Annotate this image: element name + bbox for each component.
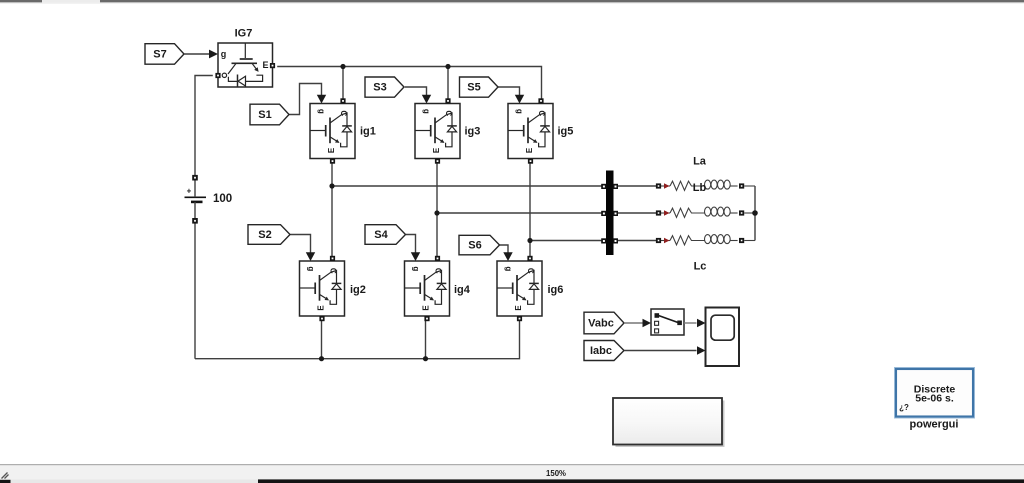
input tag S4: [365, 225, 406, 245]
wire phase C to bus: [530, 240, 602, 242]
svg-text:ig6: ig6: [548, 284, 564, 296]
input tag S2: [248, 225, 290, 245]
status bar: [0, 464, 1024, 479]
arrowhead into IG7 g port: [209, 50, 218, 59]
output tag Iabc: [584, 341, 624, 361]
svg-text:g: g: [221, 49, 227, 59]
wire S2 to ig2 gate: [290, 235, 310, 253]
wire phase C vertical ig5 E to ig6 C: [529, 159, 531, 262]
junction node bottom rail at ig2: [319, 356, 324, 361]
wire: top DC+ rail from IG7 E to ig5 collector: [277, 67, 541, 99]
IGBT block IG7: [215, 43, 275, 87]
pin bus left port A: [601, 184, 606, 189]
svg-text:S5: S5: [467, 82, 480, 94]
input tag S1: [250, 104, 289, 125]
RL branch Lb: [656, 207, 755, 217]
powergui block: [895, 368, 975, 418]
subsystem rectangle block: [613, 398, 725, 447]
manual switch block: [651, 309, 684, 335]
wire: bottom DC- rail: [195, 321, 520, 359]
wire ig2 emitter drop: [321, 316, 323, 359]
three-phase measurement bus bar: [601, 171, 618, 256]
svg-text:Vabc: Vabc: [588, 318, 614, 330]
wire ig3 collector riser: [447, 67, 449, 99]
scope block: [706, 308, 740, 367]
junction node neutral: [752, 210, 758, 216]
window tab strip (top chrome): [0, 0, 1024, 4]
resize handle glyph bottom-left: [2, 473, 9, 479]
junction node bottom rail at ig4: [423, 356, 428, 361]
pin DC source minus port: [192, 218, 198, 224]
output tag Vabc: [584, 312, 624, 334]
junction node top rail at ig1: [340, 64, 345, 69]
wire bus to branch La: [618, 185, 657, 187]
svg-text:150%: 150%: [546, 469, 566, 478]
input tag S7: [145, 44, 184, 64]
wire manual switch to scope: [684, 322, 697, 324]
pin E port of IG7: [270, 63, 275, 68]
pin bus right port A: [613, 184, 618, 189]
svg-text:S7: S7: [153, 49, 166, 61]
svg-text:Lc: Lc: [694, 261, 707, 273]
svg-text:ig2: ig2: [350, 284, 366, 296]
pin bus right port C: [613, 238, 618, 243]
svg-text:Lb: Lb: [693, 182, 707, 194]
svg-text:ig3: ig3: [465, 126, 481, 138]
svg-text:S2: S2: [258, 229, 271, 241]
wire DC source positive to IG7 C: [195, 76, 213, 176]
RL branch La: [656, 180, 755, 190]
svg-text:5e-06 s.: 5e-06 s.: [915, 393, 954, 405]
input tag S3: [365, 77, 404, 97]
svg-text:Iabc: Iabc: [590, 345, 612, 357]
svg-text:¿?: ¿?: [899, 403, 909, 412]
pin bus right port B: [613, 211, 618, 216]
transistor block ig3: [415, 98, 460, 163]
svg-text:S6: S6: [468, 240, 481, 252]
svg-text:S4: S4: [374, 229, 388, 241]
junction node phase B: [434, 210, 439, 215]
wire S6 to ig6 gate: [500, 245, 508, 253]
input tag S5: [460, 77, 499, 97]
svg-text:ig1: ig1: [360, 126, 376, 138]
svg-text:+: +: [187, 187, 192, 196]
wire Vabc to manual switch: [624, 322, 642, 324]
junction node phase C: [527, 238, 532, 243]
wire S4 to ig4 gate: [406, 235, 416, 253]
wire S5 to ig5 gate: [498, 87, 520, 95]
wire DC source negative to bottom rail: [194, 224, 196, 359]
wire load neutral vertical: [754, 186, 756, 241]
svg-text:powergui: powergui: [910, 419, 959, 431]
svg-text:ig5: ig5: [558, 126, 574, 138]
pin DC source plus port: [192, 175, 198, 181]
wire bus to branch Lc: [618, 240, 657, 242]
wire S1 to ig1 gate: [289, 84, 321, 115]
svg-text:S3: S3: [373, 82, 386, 94]
wire phase A to bus: [332, 185, 602, 187]
RL branch Lc: [656, 235, 755, 245]
input tag S6: [459, 235, 500, 255]
wire phase B vertical ig3 E to ig4 C: [436, 159, 438, 262]
transistor block ig5: [508, 98, 553, 163]
transistor block ig1: [310, 98, 355, 163]
pin C port of IG7: [215, 73, 220, 78]
transistor block ig4: [405, 256, 450, 321]
DC voltage source 100 V: [185, 175, 207, 224]
svg-text:ig4: ig4: [454, 284, 471, 296]
svg-text:S1: S1: [258, 109, 271, 121]
wire bus to branch Lb: [618, 212, 657, 214]
svg-text:E: E: [262, 60, 268, 70]
wire phase B to bus: [437, 212, 602, 214]
junction node phase A: [329, 183, 334, 188]
svg-text:La: La: [693, 156, 707, 168]
svg-text:100: 100: [213, 193, 232, 205]
junction node top rail at ig3: [445, 64, 450, 69]
svg-text:IG7: IG7: [235, 28, 253, 40]
transistor block ig2: [300, 256, 345, 321]
wire phase A vertical ig1 E to ig2 C: [331, 159, 333, 262]
wire S3 to ig3 gate: [405, 87, 427, 95]
wire ig4 emitter drop: [425, 316, 427, 359]
wire S7 to IG7 gate: [185, 53, 210, 55]
pin bus left port C: [601, 238, 606, 243]
wire ig1 collector riser: [342, 67, 344, 99]
transistor block ig6: [497, 256, 542, 321]
horizontal scrollbar: [0, 479, 1024, 483]
pin bus left port B: [601, 211, 606, 216]
wire Iabc to scope: [624, 350, 696, 352]
